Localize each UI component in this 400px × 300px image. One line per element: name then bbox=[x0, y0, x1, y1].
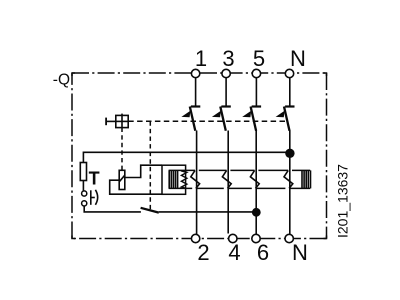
switch pole 1 blade bbox=[190, 107, 196, 131]
switch pole 5 blade bbox=[251, 107, 257, 131]
svg-text:T: T bbox=[89, 169, 100, 189]
switch pole 1 arrow bbox=[181, 111, 190, 118]
mechanism to coil dashed link bbox=[121, 128, 123, 171]
test button contact terminal upper bbox=[82, 191, 87, 196]
transformer crossing jog pole N bbox=[284, 170, 293, 188]
node junction on N bbox=[285, 149, 294, 158]
terminal N top bbox=[285, 69, 293, 77]
wire pole 3 lower conductor bbox=[227, 131, 229, 234]
transformer crossing jog pole 6 bbox=[250, 170, 259, 188]
svg-text:2: 2 bbox=[197, 240, 209, 265]
wire coil right to secondary loop top bbox=[125, 165, 162, 177]
wire pole N upper conductor bbox=[289, 78, 291, 107]
wire pole 1 upper conductor bbox=[195, 78, 197, 107]
mechanical linkage dashed line bbox=[128, 120, 286, 122]
terminal 3 bbox=[222, 69, 230, 77]
wire test button to test contact bbox=[84, 206, 141, 212]
wire pole 3 upper conductor bbox=[225, 78, 227, 107]
svg-text:I201_13637: I201_13637 bbox=[334, 164, 350, 238]
test contact blade bbox=[141, 208, 159, 213]
switch pole 3 blade bbox=[220, 107, 226, 131]
current transformer secondary zigzag bbox=[181, 171, 187, 188]
terminal 2 bbox=[191, 234, 199, 242]
switch pole 3 fixed contact tick bbox=[221, 105, 230, 107]
test button actuator bbox=[91, 190, 98, 205]
wire test contact to pole 6 bbox=[159, 211, 256, 213]
terminal N bottom bbox=[285, 234, 293, 242]
svg-text:6: 6 bbox=[257, 240, 269, 265]
transformer crossing jog pole 2 bbox=[191, 170, 200, 188]
node junction on pole 6 bbox=[252, 208, 261, 217]
svg-text:-Q: -Q bbox=[53, 71, 70, 88]
trip mechanism square with cross bbox=[106, 114, 128, 128]
svg-text:N: N bbox=[292, 240, 308, 265]
switch pole N fixed contact tick bbox=[285, 105, 294, 107]
current transformer core band top edge bbox=[169, 169, 311, 171]
trip coil K bbox=[119, 170, 125, 189]
resistor R test bbox=[80, 163, 86, 181]
svg-text:N: N bbox=[290, 46, 306, 71]
secondary winding loop rectangle bbox=[162, 165, 186, 194]
svg-text:3: 3 bbox=[222, 46, 234, 71]
switch pole 1 fixed contact tick bbox=[191, 105, 200, 107]
switch pole N arrow bbox=[276, 111, 285, 118]
switch pole 5 fixed contact tick bbox=[252, 105, 261, 107]
wire neutral to test resistor bbox=[83, 152, 289, 162]
switch pole N blade bbox=[284, 107, 290, 131]
device boundary dash-dot border bbox=[72, 73, 327, 239]
current transformer core band bottom edge bbox=[169, 187, 311, 189]
test button contact terminal lower bbox=[82, 201, 87, 206]
wire pole 5 lower conductor bbox=[255, 131, 257, 235]
svg-text:1: 1 bbox=[195, 46, 207, 71]
wire pole 5 upper conductor bbox=[255, 78, 257, 107]
terminal 6 bbox=[252, 234, 260, 242]
terminal 1 bbox=[191, 69, 199, 77]
current transformer right hatched end bbox=[302, 170, 311, 188]
wire coil left to secondary loop bbox=[110, 180, 162, 194]
terminal 5 bbox=[252, 69, 260, 77]
svg-text:4: 4 bbox=[228, 240, 240, 265]
terminal 4 bbox=[229, 234, 237, 242]
wire resistor to test button bbox=[82, 181, 84, 192]
wire pole 1 lower conductor bbox=[196, 131, 198, 235]
transformer crossing jog pole 4 bbox=[222, 170, 231, 188]
switch pole 5 arrow bbox=[242, 111, 251, 118]
border corner stubs bbox=[72, 73, 327, 239]
switch pole 3 arrow bbox=[212, 111, 221, 118]
wire pole N lower conductor bbox=[289, 131, 291, 235]
test button linkage dashed vertical bbox=[149, 121, 151, 210]
svg-text:5: 5 bbox=[253, 46, 265, 71]
current transformer left hatched end bbox=[169, 170, 177, 188]
